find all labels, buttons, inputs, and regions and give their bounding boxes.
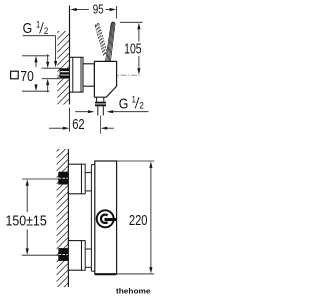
wall hatch (top view)	[46, 8, 82, 148]
shower outlet neck (top view)	[96, 97, 98, 102]
svg-text:150±15: 150±15	[6, 213, 47, 229]
union nut at body (top view)	[83, 64, 94, 86]
wall hatch (front view)	[46, 126, 82, 300]
in-wall union fitting (top view)	[60, 68, 70, 78]
upper connection stub	[85, 172, 91, 174]
dimension 95	[76, 6, 116, 19]
lower connection stub	[85, 248, 91, 250]
wall surface line (front view)	[67, 149, 69, 287]
small reference dimension at fitting	[42, 54, 60, 92]
supply axis centerline (top view)	[57, 74, 142, 76]
outlet collar	[95, 102, 106, 107]
svg-text:1: 1	[132, 95, 136, 105]
upper in-wall fitting (front view)	[58, 172, 68, 185]
svg-text:G: G	[119, 95, 129, 112]
svg-text:95: 95	[93, 2, 104, 17]
dimension 220	[117, 161, 155, 274]
mixer body (front view)	[95, 161, 117, 274]
dimension 62	[69, 108, 71, 132]
upper escutcheon (front view)	[68, 164, 81, 194]
lower in-wall fitting (front view)	[58, 248, 68, 261]
handle lever solid position	[106, 22, 116, 61]
wall surface line (top view, also 95-dim left extension)	[69, 6, 71, 105]
GROHE logo emblem	[97, 210, 114, 227]
dimension 105	[120, 22, 143, 68]
outlet centerline	[100, 116, 102, 134]
svg-text:62: 62	[72, 117, 84, 133]
dimension square 70	[11, 71, 19, 79]
back plate edge	[90, 165, 92, 272]
svg-text:2: 2	[44, 26, 49, 36]
escutcheon side profile	[70, 57, 84, 92]
svg-text:1: 1	[36, 20, 40, 30]
outlet nipple	[97, 106, 99, 115]
svg-text:70: 70	[20, 69, 33, 85]
svg-text:220: 220	[129, 213, 148, 229]
svg-text:G: G	[23, 20, 33, 37]
lower escutcheon (front view)	[68, 241, 81, 271]
svg-text:105: 105	[124, 41, 142, 57]
dimension 150 +/- 15	[22, 179, 60, 255]
mixer body (top view)	[94, 61, 116, 97]
svg-text:thehome: thehome	[116, 286, 151, 295]
handle lever dashed alternate position	[95, 24, 106, 57]
svg-text:2: 2	[139, 101, 144, 111]
